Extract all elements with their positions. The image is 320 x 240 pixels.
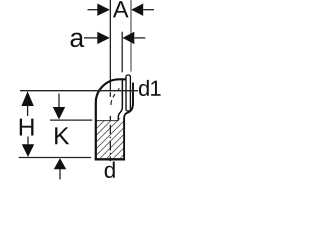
dimension K: down arrow from above	[53, 94, 65, 120]
label d1	[139, 80, 161, 96]
dimension a: left tail + arrowhead	[84, 32, 110, 44]
dimension K: up arrow from below	[54, 158, 66, 179]
dimension A: left tail + arrowhead	[88, 4, 110, 16]
centerline axis (vertical, x=110.35): solid extension top, dash-dot through figure	[109, 0, 111, 161]
dimension A: label	[113, 1, 129, 17]
dimension a: label	[71, 33, 85, 48]
dimension A: right arrowhead + tail	[131, 4, 154, 16]
dimension H: up arrow	[21, 91, 33, 116]
K top reference line (y=120.1)	[50, 119, 92, 121]
dimension a: right arrowhead + tail	[123, 32, 146, 44]
dimension K: label	[55, 127, 69, 144]
bead / socket mouth capsule	[126, 75, 130, 111]
body outer profile: left wall, corner arc, top edge	[96, 79, 126, 160]
socket inner wall with S-curve	[118, 79, 122, 121]
bottom reference line (y=157.8)	[19, 157, 91, 159]
dimension H: label	[20, 119, 34, 136]
extension line for dimension a (x=122.2)	[121, 32, 123, 73]
hidden bore edge (dashed ticks)	[111, 88, 119, 105]
dimension H: down arrow	[22, 137, 34, 158]
body right wall with S-curve from socket	[124, 83, 133, 161]
hatched cross-section (45-degree section lines)	[60, 110, 168, 158]
body bottom edge	[95, 158, 125, 160]
label d (bottom)	[105, 162, 115, 179]
gray pipe axis line (x=131)	[130, 0, 132, 72]
cavity bottom thin line	[97, 120, 119, 122]
H top reference line / d1 leader line (y=90.7)	[20, 90, 138, 92]
